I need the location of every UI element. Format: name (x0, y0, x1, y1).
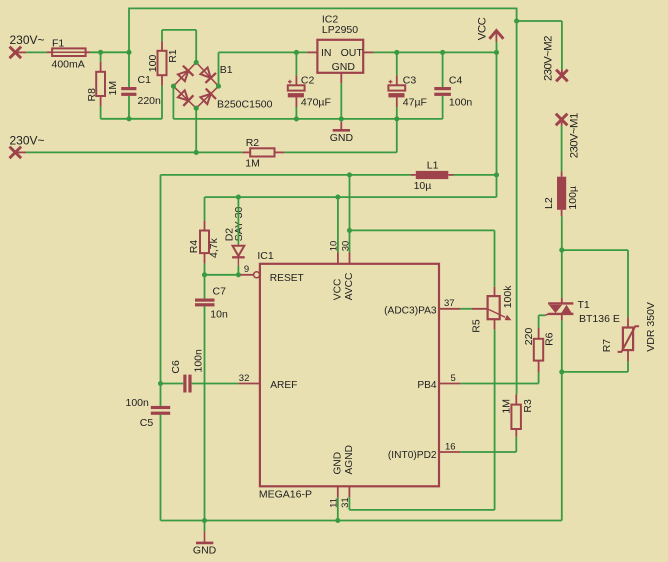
wire mid vertical node A (516, 8, 518, 395)
wire R4 bottom (204, 264, 206, 275)
wire L2 bottom (561, 216, 563, 250)
svg-text:37: 37 (444, 298, 455, 309)
wire C3 top (396, 52, 398, 75)
terminal X3 230V~ neutral (10, 133, 45, 158)
svg-text:1M: 1M (245, 158, 260, 170)
wire B left to R4 (205, 196, 338, 198)
wire bridge right to IC2 IN (219, 51, 308, 53)
svg-text:1M: 1M (500, 399, 512, 414)
junction GND rail / C2 (294, 116, 299, 121)
wire pin31 down (348, 497, 350, 510)
svg-text:(INT0)PD2: (INT0)PD2 (388, 450, 437, 461)
wire D2 top (237, 197, 239, 244)
wire F1 to node A (90, 51, 129, 53)
junction wire A / AVCC column (347, 172, 352, 177)
svg-text:GND: GND (193, 545, 217, 557)
voltage regulator IC2 LP2950 (307, 14, 373, 84)
wire pin10 VCC (337, 197, 339, 252)
capacitor C3 47uF (388, 74, 427, 108)
wire R4 top vertical (204, 197, 206, 221)
wire IC2 OUT to VCC (373, 51, 496, 53)
svg-text:100: 100 (147, 55, 159, 73)
wire R8 top (100, 52, 102, 62)
wire PD2 (460, 451, 516, 453)
junction MT1 / R7 (559, 369, 564, 374)
wire bridge bottom down (195, 108, 197, 152)
terminal X2 230V~M2 (542, 36, 567, 81)
svg-text:100n: 100n (126, 397, 150, 409)
junction AVCC / C6 / C5 (158, 381, 163, 386)
fuse F1 400mA (47, 37, 91, 70)
inductor L2 100u (543, 171, 579, 216)
wire C AVCC horizontal (350, 229, 495, 231)
wire C4 bottom (442, 96, 444, 119)
svg-text:230V~M2: 230V~M2 (542, 36, 554, 81)
junction DC+ / C2 (294, 50, 299, 55)
junction AVCC / wire C (347, 228, 352, 233)
wire bridge right up (218, 52, 220, 86)
pin 31 AGND (340, 445, 355, 508)
capacitor C7 10n (195, 286, 228, 321)
svg-text:C6: C6 (170, 360, 182, 374)
wire PA3 (460, 308, 472, 310)
svg-text:R3: R3 (522, 399, 534, 413)
wire MT1 to GND rail (561, 372, 563, 521)
wire T1 MT2 up (561, 250, 563, 298)
junction node A / M2 branch (514, 18, 519, 23)
inductor L1 10u (411, 159, 454, 191)
svg-text:VCC: VCC (332, 279, 343, 301)
svg-text:C5: C5 (140, 417, 154, 429)
terminal X4 230V~M1 (556, 113, 581, 158)
diode D2 SAY 30 (224, 207, 245, 266)
junction wire B / D2 (236, 195, 241, 200)
junction RESET / D2 (236, 272, 241, 277)
wire pin30 AVCC (349, 230, 351, 252)
svg-text:GND: GND (332, 61, 356, 73)
wire R2 to GND rail horizontal (284, 151, 396, 153)
wire GND rail upper (173, 118, 442, 120)
wire IC2 GND down (340, 83, 342, 119)
wire M2 branch horizontal (517, 20, 562, 22)
junction VCC / L1 right (494, 172, 499, 177)
resistor R3 1M (500, 394, 534, 437)
capacitor C4 100n (434, 74, 472, 108)
wire node B rail (101, 118, 162, 120)
wire VCC column upper (496, 52, 498, 174)
power symbol VCC (476, 17, 503, 41)
wire C5 top (160, 384, 162, 406)
svg-text:IC1: IC1 (257, 250, 274, 262)
svg-text:100n: 100n (449, 97, 473, 109)
wire PB4 (460, 383, 538, 385)
resistor R4 4,7k (188, 221, 220, 264)
wire R8 bottom (100, 106, 102, 119)
svg-text:C2: C2 (301, 74, 315, 86)
bridge rectifier B1 B250C1500 (173, 62, 272, 110)
wire C6 left (161, 383, 184, 385)
pin 11 GND (329, 452, 344, 508)
svg-text:VDR 350V: VDR 350V (645, 302, 657, 352)
junction GND rail / C3 / R2 (394, 116, 399, 121)
potentiometer R5 100k (470, 285, 514, 333)
svg-text:220: 220 (523, 328, 535, 346)
capacitor C2 470uF (288, 74, 331, 108)
wire R1 bottom (161, 86, 163, 119)
junction RESET / R4 (202, 272, 207, 277)
wire C4 top (442, 52, 444, 87)
svg-text:R5: R5 (470, 319, 482, 333)
svg-text:47µF: 47µF (403, 97, 427, 109)
svg-text:RESET: RESET (270, 273, 304, 284)
wire VCC column to wire B (496, 175, 498, 197)
wire R7 bottom vertical (627, 361, 629, 372)
junction GND rail / IC2 GND (339, 116, 344, 121)
resistor R8 1M (86, 62, 119, 106)
svg-text:100µ: 100µ (567, 186, 579, 210)
junction GND rail / GND symbol (202, 518, 207, 523)
svg-text:F1: F1 (52, 37, 64, 49)
svg-text:230V~: 230V~ (10, 33, 45, 47)
pin 10 VCC (329, 241, 344, 300)
ground symbol GND lower (193, 521, 217, 557)
junction bridge right vertex (216, 84, 221, 89)
svg-text:9: 9 (244, 264, 249, 275)
wire R6 bottom (538, 372, 540, 383)
capacitor C1 220n (121, 74, 161, 107)
pin 5 PB4 (417, 373, 460, 391)
resistor R1 100 (147, 41, 179, 86)
svg-text:5: 5 (451, 373, 456, 384)
wire A AVCC horizontal (161, 174, 411, 176)
wire C5 bottom (160, 415, 162, 521)
svg-text:AGND: AGND (344, 445, 355, 474)
svg-text:C3: C3 (403, 74, 417, 86)
wire GND rail lower (161, 520, 562, 522)
svg-text:R8: R8 (86, 88, 98, 102)
svg-text:OUT: OUT (341, 47, 364, 59)
triac T1 BT136 E (545, 298, 620, 325)
junction neutral / bridge bottom (194, 150, 199, 155)
wire C6 to AREF (192, 383, 239, 385)
wire top rail node A (128, 7, 516, 9)
wire R7 top (627, 250, 629, 317)
wire node A up (128, 8, 130, 52)
svg-text:GND: GND (332, 452, 343, 475)
varistor R7 VDR 350V (601, 302, 657, 361)
svg-text:GND: GND (330, 132, 354, 144)
capacitor C5 100n (126, 397, 171, 429)
wire R3 bottom (515, 437, 517, 452)
pin 32 AREF (238, 373, 297, 391)
wire C2 top (295, 52, 297, 75)
pin 30 AVCC (340, 241, 355, 300)
wire R1 to bridge top horizontal (162, 29, 196, 31)
svg-text:VCC: VCC (476, 17, 488, 40)
wire C2 bottom (295, 107, 297, 119)
svg-text:B250C1500: B250C1500 (217, 99, 273, 111)
svg-text:R1: R1 (167, 49, 179, 63)
junction GND rail / pin11 (335, 518, 340, 523)
wire RESET (205, 274, 241, 276)
svg-text:10µ: 10µ (414, 180, 432, 192)
svg-text:AVCC: AVCC (344, 273, 355, 301)
wire C7 bottom (204, 306, 206, 520)
resistor R2 1M (242, 137, 284, 170)
svg-text:MEGA16-P: MEGA16-P (259, 489, 312, 501)
svg-text:1M: 1M (107, 81, 119, 96)
svg-text:R4: R4 (188, 240, 200, 254)
svg-text:(ADC3)PA3: (ADC3)PA3 (384, 306, 437, 317)
svg-text:100n: 100n (193, 349, 205, 373)
svg-text:IN: IN (321, 47, 332, 59)
wire C1 bottom (128, 96, 130, 119)
svg-text:230V~: 230V~ (10, 133, 45, 147)
svg-text:C7: C7 (213, 286, 227, 298)
svg-text:C4: C4 (449, 74, 463, 86)
pin 37 ADC3 PA3 (384, 298, 460, 317)
svg-text:4,7k: 4,7k (208, 237, 220, 258)
svg-text:220n: 220n (138, 95, 162, 107)
wire C down to R5 (494, 230, 496, 286)
wire D2 bottom (237, 266, 239, 275)
svg-text:B1: B1 (220, 64, 233, 76)
wire gate horizontal (539, 314, 546, 316)
wire R6 top to gate (538, 315, 540, 327)
wire C3 bottom (396, 107, 398, 119)
junction L2 / T1 / R7 (559, 248, 564, 253)
wire X1 to F1 (26, 51, 46, 53)
svg-text:30: 30 (340, 241, 351, 252)
svg-text:R2: R2 (246, 137, 260, 149)
wire M2 branch vertical (561, 21, 563, 70)
wire B VCC horizontal (338, 196, 497, 198)
svg-text:10n: 10n (210, 309, 228, 321)
junction wire B / pin10 (335, 195, 340, 200)
svg-text:230V~M1: 230V~M1 (568, 113, 580, 158)
wire bridge top vertical (195, 30, 197, 63)
resistor R6 220 (523, 328, 555, 373)
svg-text:LP2950: LP2950 (322, 24, 358, 36)
junction VCC symbol (494, 50, 499, 55)
svg-text:100k: 100k (502, 285, 514, 309)
svg-text:L2: L2 (543, 197, 555, 209)
svg-text:C1: C1 (138, 74, 152, 86)
microcontroller IC1 MEGA16-P (257, 250, 439, 501)
wire C7 top (204, 275, 206, 299)
junction bridge bottom vertex (194, 106, 199, 111)
wire bridge left down (172, 86, 174, 119)
wire C1 top (128, 52, 130, 87)
junction VCC / C3 (394, 50, 399, 55)
wire R1 top vertical (161, 30, 163, 41)
svg-text:16: 16 (445, 441, 456, 452)
wire L2 top (561, 126, 563, 172)
pin 16 INT0 PD2 (388, 441, 460, 461)
junction node A / R8 (98, 50, 103, 55)
svg-text:470µF: 470µF (301, 97, 331, 109)
pin 9 RESET (240, 264, 303, 284)
svg-text:10: 10 (329, 241, 340, 252)
terminal X1 230V~ live (10, 33, 45, 58)
svg-text:32: 32 (239, 373, 250, 384)
wire L2 node horizontal (562, 249, 628, 251)
wire neutral (26, 151, 242, 153)
junction node B / C1 (126, 116, 131, 121)
wire MT1 to R7 horizontal (562, 371, 628, 373)
wire R2 to GND rail vertical (396, 119, 398, 152)
wire pin11 down (337, 497, 339, 520)
junction bridge left vertex (171, 84, 176, 89)
svg-text:AREF: AREF (270, 380, 297, 391)
junction node A / C1 (126, 50, 131, 55)
junction VCC / C4 (440, 50, 445, 55)
svg-text:400mA: 400mA (52, 58, 85, 70)
junction bridge top vertex (194, 60, 199, 65)
wire AGND up to R5 (494, 329, 496, 510)
wire VCC symbol stem (496, 42, 498, 53)
svg-text:R7: R7 (601, 339, 613, 353)
ground symbol GND upper (330, 119, 354, 144)
wire AVCC column left (160, 175, 162, 384)
wire L1 right (454, 174, 497, 176)
wire AVCC vertical (349, 175, 351, 231)
capacitor C6 100n (170, 349, 205, 393)
svg-text:T1: T1 (578, 299, 590, 311)
wire AGND horizontal (349, 509, 494, 511)
svg-text:BT136 E: BT136 E (579, 313, 620, 325)
svg-text:R6: R6 (543, 332, 555, 346)
wire T1 MT1 down (561, 320, 563, 372)
svg-text:L1: L1 (427, 159, 439, 171)
svg-text:PB4: PB4 (417, 380, 437, 391)
